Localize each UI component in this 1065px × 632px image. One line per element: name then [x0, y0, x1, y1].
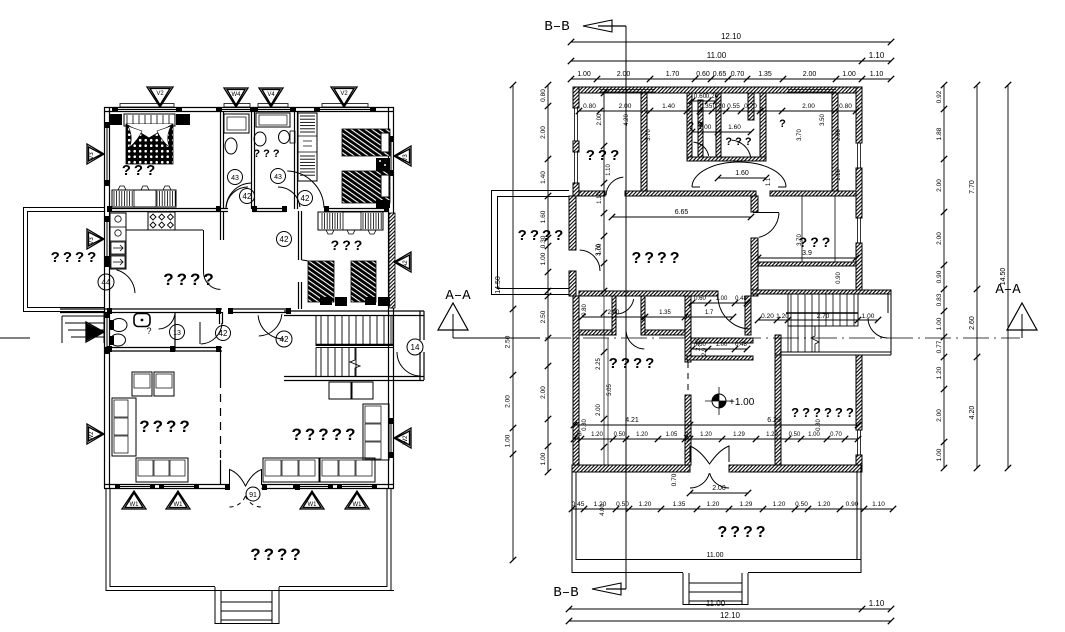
svg-text:W1: W1 [130, 502, 140, 508]
bottom band walls [687, 356, 753, 360]
svg-text:0.60: 0.60 [696, 71, 710, 78]
right wall windows [390, 142, 392, 170]
svg-text:3.70: 3.70 [596, 244, 602, 256]
svg-text:0.77: 0.77 [936, 340, 943, 353]
svg-text:0.80: 0.80 [816, 419, 822, 431]
left wall windows [106, 128, 108, 180]
svg-text:????: ???? [717, 524, 768, 541]
stairs right plan lower flight [790, 326, 792, 352]
svg-text:1.20: 1.20 [818, 501, 831, 508]
right terrace steps [682, 573, 684, 605]
kitchen counter [110, 213, 126, 269]
svg-text:7.70: 7.70 [969, 180, 976, 194]
svg-text:3.9: 3.9 [802, 250, 812, 257]
svg-text:0.65: 0.65 [713, 71, 727, 78]
right plan interior walls [579, 191, 605, 196]
wall bath2/bedroom2 [294, 111, 296, 209]
svg-text:2.00: 2.00 [505, 395, 512, 408]
svg-text:1.00: 1.00 [716, 342, 728, 348]
svg-text:6.29: 6.29 [767, 417, 781, 424]
interior wall bed/bath band [110, 208, 228, 210]
nightstand bedroom2 a [376, 158, 390, 171]
kitchen island hob [148, 212, 175, 230]
svg-text:1.00: 1.00 [936, 317, 943, 330]
svg-text:2.00: 2.00 [936, 232, 943, 245]
svg-text:V2: V2 [340, 91, 348, 97]
svg-text:11.00: 11.00 [707, 51, 727, 60]
svg-text:0.92: 0.92 [936, 90, 943, 103]
tv squares between beds [335, 297, 347, 306]
door arc bottom small room [626, 332, 644, 349]
svg-text:1.20: 1.20 [936, 366, 943, 379]
bath2 toilet [279, 131, 290, 144]
svg-text:1.10: 1.10 [869, 599, 885, 608]
svg-text:0.80: 0.80 [583, 103, 596, 110]
hall door arcs [226, 183, 251, 208]
left wall triangles [87, 144, 104, 164]
entry double door [230, 470, 262, 487]
closet bedroom2 [298, 113, 317, 181]
svg-text:1.00: 1.00 [936, 448, 943, 461]
svg-text:0.50: 0.50 [795, 501, 808, 508]
right plan annex balcony [491, 190, 569, 192]
svg-text:1.40: 1.40 [662, 103, 675, 110]
living1 sofa bottom [136, 458, 188, 482]
svg-text:1.20: 1.20 [773, 501, 786, 508]
svg-text:44: 44 [102, 278, 111, 287]
svg-text:???: ??? [725, 136, 754, 148]
svg-text:+1.00: +1.00 [729, 397, 755, 408]
svg-text:4.20: 4.20 [969, 406, 976, 420]
svg-text:?????: ????? [292, 425, 359, 444]
dresser bedroom1 [112, 190, 176, 207]
svg-text:0.20: 0.20 [761, 313, 774, 320]
wc door arc [159, 315, 175, 329]
svg-text:V3: V3 [89, 152, 95, 160]
svg-text:5.05: 5.05 [607, 384, 613, 396]
terrace left plan [105, 488, 107, 591]
nightstand right [176, 114, 190, 125]
living2 sofa right [363, 404, 389, 460]
wc sink [134, 314, 150, 327]
svg-text:B–B: B–B [553, 585, 578, 601]
svg-text:1.00: 1.00 [716, 296, 728, 302]
door jamb blocks [107, 206, 112, 212]
svg-text:??????: ?????? [791, 405, 857, 420]
svg-text:0.50: 0.50 [614, 432, 626, 438]
inner vertical dims right plan [603, 93, 605, 291]
svg-text:2.00: 2.00 [619, 103, 632, 110]
svg-text:B–B: B–B [544, 19, 569, 35]
svg-text:1.00: 1.00 [540, 452, 547, 465]
svg-text:2.50: 2.50 [540, 310, 547, 323]
bath1 door arc [226, 187, 248, 207]
svg-text:0.80: 0.80 [540, 89, 547, 102]
svg-text:1.10: 1.10 [606, 164, 612, 176]
svg-text:1.00: 1.00 [505, 434, 512, 447]
living2 sofa bottom b [320, 458, 375, 482]
svg-text:W4: W4 [232, 92, 242, 98]
svg-text:2.00: 2.00 [802, 103, 815, 110]
svg-text:1.10: 1.10 [597, 192, 603, 204]
living1 sofa vertical [112, 398, 136, 456]
svg-text:2.00: 2.00 [540, 126, 547, 139]
svg-text:A2: A2 [403, 260, 409, 268]
svg-text:1.60: 1.60 [540, 210, 547, 223]
wc bidet [111, 334, 126, 346]
dim small above baths [692, 100, 716, 102]
svg-text:1.35: 1.35 [659, 310, 671, 316]
bath2 door arc [278, 187, 300, 207]
svg-text:1.20: 1.20 [766, 432, 778, 438]
svg-text:2.9: 2.9 [702, 347, 708, 356]
svg-text:1.1: 1.1 [766, 177, 772, 186]
svg-text:1.00: 1.00 [699, 124, 712, 131]
svg-text:1.29: 1.29 [733, 432, 745, 438]
living2 sofa bottom a [263, 458, 319, 482]
level marker +1.00 [712, 394, 726, 408]
stair lower flight [320, 348, 322, 377]
svg-text:2.00: 2.00 [936, 179, 943, 192]
svg-text:0.70: 0.70 [713, 103, 726, 110]
svg-text:2.00: 2.00 [712, 485, 726, 492]
wc bottom wall [105, 347, 222, 349]
kitchen counter strip [126, 229, 148, 231]
svg-text:???: ??? [122, 162, 159, 179]
svg-text:1.20: 1.20 [700, 432, 712, 438]
svg-text:1.00: 1.00 [577, 71, 591, 78]
dim 12.10 top [571, 41, 891, 43]
svg-text:W1: W1 [308, 502, 318, 508]
dim detail row top [571, 78, 891, 80]
svg-text:42: 42 [280, 235, 289, 244]
bath1 sink [225, 138, 237, 154]
dim row y509 terrace [572, 508, 893, 510]
svg-text:???: ??? [799, 234, 834, 250]
svg-text:12.10: 12.10 [721, 32, 742, 41]
svg-text:A–A: A–A [995, 282, 1021, 298]
svg-text:?: ? [779, 118, 789, 130]
dim 4.21 6.29 [574, 424, 858, 426]
wall bath1/bath2 [251, 111, 253, 209]
svg-text:W1: W1 [353, 502, 363, 508]
right wall hatched segment [389, 213, 395, 308]
svg-text:2.00: 2.00 [596, 404, 602, 416]
svg-text:0.70: 0.70 [830, 432, 842, 438]
svg-text:????: ???? [163, 270, 217, 289]
svg-text:42: 42 [243, 192, 252, 201]
bed4 vertical [308, 261, 334, 302]
svg-text:????: ???? [250, 545, 304, 564]
svg-text:????: ???? [609, 355, 658, 372]
door 14 arc [397, 352, 420, 376]
svg-text:V3: V3 [89, 237, 95, 245]
wc right wall [219, 312, 221, 324]
svg-text:0.48: 0.48 [735, 296, 747, 302]
svg-text:???: ??? [331, 237, 366, 253]
dim interior row top [579, 110, 856, 112]
svg-text:0.70: 0.70 [744, 103, 757, 110]
svg-text:42: 42 [219, 329, 228, 338]
svg-text:6.65: 6.65 [675, 209, 689, 216]
bed 3 single [342, 171, 390, 203]
svg-text:2.00: 2.00 [617, 71, 631, 78]
svg-text:1.35: 1.35 [758, 71, 772, 78]
stairs right plan break [811, 326, 819, 352]
stairs right plan upper flight [788, 294, 858, 313]
living room divider dashed [220, 351, 222, 380]
svg-text:0.70: 0.70 [671, 473, 678, 486]
svg-text:1.88: 1.88 [936, 127, 943, 140]
svg-text:0.60: 0.60 [694, 296, 706, 302]
stair landing rail [316, 344, 393, 346]
svg-text:1.05: 1.05 [666, 432, 678, 438]
svg-text:V3: V3 [403, 154, 409, 162]
svg-text:???: ??? [253, 148, 282, 160]
svg-text:2.00: 2.00 [836, 129, 842, 141]
arch 1.60 entrance [692, 162, 786, 187]
svg-text:2.25: 2.25 [596, 358, 602, 370]
nightstand left [110, 114, 122, 125]
svg-text:2.00: 2.00 [540, 386, 547, 399]
svg-text:V2: V2 [156, 91, 164, 97]
svg-text:0.80: 0.80 [582, 419, 588, 431]
left plan exterior walls [104, 107, 394, 109]
svg-text:3.70: 3.70 [797, 234, 803, 246]
right wall triangles [394, 146, 411, 166]
right plan terrace [571, 472, 573, 573]
svg-text:0.80: 0.80 [839, 103, 852, 110]
left vertical dims right plan [512, 85, 514, 560]
bed5 vertical [351, 261, 376, 302]
svg-text:0.30: 0.30 [540, 235, 547, 248]
svg-text:W1: W1 [174, 502, 184, 508]
kitchen wall stub [220, 211, 222, 240]
steps triangles [86, 322, 104, 342]
dresser bedroom3 [318, 212, 383, 230]
svg-text:0.35: 0.35 [700, 103, 713, 110]
door 44 arc [117, 270, 136, 293]
stair upper flight [316, 316, 393, 346]
right plan exterior walls hatched [573, 87, 862, 93]
svg-text:91: 91 [249, 492, 257, 499]
svg-text:1.00: 1.00 [842, 71, 856, 78]
bath2 tub [256, 113, 290, 127]
svg-text:????: ???? [139, 417, 193, 436]
svg-text:43: 43 [231, 175, 239, 182]
svg-text:2.00: 2.00 [597, 113, 603, 125]
far right vertical dims [943, 85, 945, 468]
svg-text:????: ???? [631, 250, 682, 267]
dim 1.60 baths [692, 131, 751, 133]
svg-text:2.40: 2.40 [608, 310, 620, 316]
svg-text:4.21: 4.21 [625, 417, 639, 424]
svg-text:12.10: 12.10 [720, 611, 741, 620]
svg-text:1.70: 1.70 [666, 71, 680, 78]
svg-text:0.90: 0.90 [836, 272, 842, 284]
stair break line [350, 347, 360, 377]
dims in stairs [758, 319, 878, 321]
stair block right annex [284, 310, 424, 312]
svg-text:0.48: 0.48 [735, 342, 747, 348]
svg-text:1.29: 1.29 [740, 501, 753, 508]
svg-text:1.7: 1.7 [705, 310, 714, 316]
bed 2 single [342, 129, 390, 156]
living2 armchair [329, 382, 351, 399]
bottom wall windows [120, 486, 150, 488]
svg-text:3.50: 3.50 [820, 114, 826, 126]
svg-text:3.70: 3.70 [646, 129, 652, 141]
svg-text:0.80: 0.80 [582, 304, 588, 316]
svg-text:1.10: 1.10 [869, 51, 885, 60]
hall corridor walls [60, 308, 222, 310]
dims bottom small rooms [692, 302, 747, 304]
right plan door arcs [580, 250, 600, 271]
svg-text:????: ???? [51, 249, 100, 266]
svg-text:1.20: 1.20 [636, 432, 648, 438]
terrace steps [214, 587, 216, 624]
svg-text:1.00: 1.00 [808, 432, 820, 438]
dim row y439 [574, 438, 858, 440]
svg-text:.26: .26 [573, 432, 582, 438]
bottom window triangles [122, 491, 146, 509]
svg-text:?: ? [146, 326, 151, 336]
door 42 arc stairs [258, 315, 284, 339]
svg-text:0.83: 0.83 [936, 293, 943, 306]
dims left small rooms [582, 316, 733, 318]
dim 2.00 door [690, 492, 748, 494]
svg-text:11.00: 11.00 [707, 552, 724, 559]
door arc stairs right [868, 318, 887, 338]
stairwell right plan walls [780, 293, 891, 295]
svg-text:1.00: 1.00 [862, 313, 875, 320]
svg-text:V4: V4 [267, 92, 275, 98]
annex side steps [62, 315, 104, 317]
svg-text:1.10: 1.10 [872, 501, 885, 508]
svg-text:2.70: 2.70 [817, 313, 830, 320]
bottom small rooms [612, 296, 616, 335]
dim 1.60 arch [718, 177, 766, 179]
svg-text:14: 14 [411, 343, 420, 352]
hall lower door arcs [199, 322, 201, 344]
svg-text:42: 42 [280, 335, 289, 344]
svg-text:43: 43 [274, 174, 282, 181]
svg-text:1.20: 1.20 [707, 501, 720, 508]
dim 11.00 1.10 top [571, 60, 891, 62]
svg-text:A–A: A–A [445, 288, 471, 304]
svg-text:W2: W2 [89, 431, 95, 441]
top window triangles [147, 87, 173, 107]
svg-text:1.35: 1.35 [673, 501, 686, 508]
living1 armchairs [132, 372, 152, 396]
svg-text:1.60: 1.60 [728, 124, 741, 131]
stairs right plan mid flight [788, 313, 858, 326]
svg-text:4.00: 4.00 [600, 504, 606, 516]
svg-text:0.90: 0.90 [846, 501, 859, 508]
svg-text:0.50: 0.50 [789, 432, 801, 438]
svg-text:2.60: 2.60 [969, 316, 976, 330]
hall walls right plan [579, 291, 718, 296]
svg-text:0.90: 0.90 [936, 270, 943, 283]
svg-text:0.20: 0.20 [706, 93, 719, 100]
gridlines right room [801, 196, 803, 262]
wc toilet [111, 319, 127, 332]
bed 1 double [124, 114, 175, 126]
bath2 sink [254, 132, 266, 146]
svg-text:11.00: 11.00 [706, 599, 726, 608]
door 44 circle [98, 274, 114, 290]
svg-text:1.10: 1.10 [836, 169, 842, 181]
wc divider [174, 312, 176, 351]
svg-text:1.40: 1.40 [540, 171, 547, 184]
svg-text:W2: W2 [403, 435, 409, 445]
svg-text:1.20: 1.20 [591, 432, 603, 438]
nightstand bedroom2 b [376, 200, 390, 208]
svg-text:4.20: 4.20 [624, 114, 630, 126]
dim bottom rows [569, 608, 891, 610]
dining/bed3 wall [298, 211, 300, 260]
svg-text:.20: .20 [683, 432, 692, 438]
svg-text:13: 13 [173, 330, 181, 337]
svg-text:2.00: 2.00 [936, 409, 943, 422]
svg-text:0.45: 0.45 [572, 501, 585, 508]
svg-text:1.10: 1.10 [870, 71, 884, 78]
svg-text:1.20: 1.20 [776, 313, 789, 320]
svg-text:0.70: 0.70 [731, 71, 745, 78]
svg-text:1.00: 1.00 [540, 252, 547, 265]
top wall windows [118, 109, 176, 111]
svg-text:2.50: 2.50 [505, 335, 512, 348]
svg-text:3.70: 3.70 [797, 129, 803, 141]
svg-text:42: 42 [301, 194, 310, 203]
wall bedroom1/bath1 [220, 111, 222, 209]
svg-text:0.50: 0.50 [616, 501, 629, 508]
bath1 shower [224, 114, 249, 133]
svg-text:1.20: 1.20 [639, 501, 652, 508]
hall door arc bedroom3 [302, 260, 323, 281]
left annex balcony [23, 207, 104, 209]
section A-A line [453, 337, 540, 339]
door 14 circle [407, 339, 423, 355]
svg-text:2.00: 2.00 [803, 71, 817, 78]
svg-text:0.55: 0.55 [727, 103, 740, 110]
dim 3.9 right room [758, 257, 856, 259]
entry double door right plan [690, 446, 729, 464]
svg-text:14.50: 14.50 [495, 276, 502, 294]
dim 6.65 [612, 216, 751, 218]
svg-text:1.60: 1.60 [735, 170, 749, 177]
